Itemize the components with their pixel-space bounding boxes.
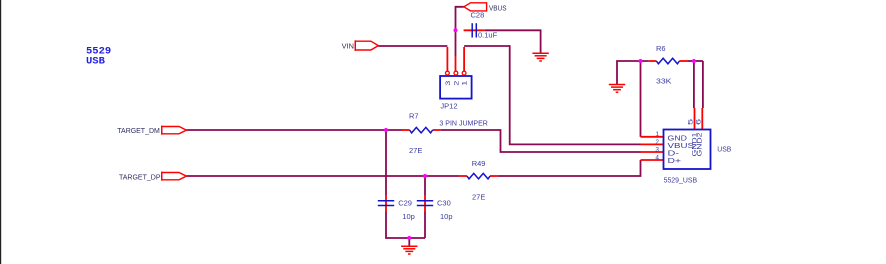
svg-text:3 PIN JUMPER: 3 PIN JUMPER	[439, 119, 488, 128]
svg-text:27E: 27E	[472, 192, 485, 201]
svg-text:USB: USB	[86, 55, 106, 67]
svg-text:0.1uF: 0.1uF	[478, 31, 498, 40]
svg-text:6: 6	[695, 119, 702, 125]
svg-text:VBUS: VBUS	[489, 3, 507, 12]
svg-text:C30: C30	[437, 199, 451, 208]
svg-text:C29: C29	[398, 199, 412, 208]
svg-text:5529_USB: 5529_USB	[664, 176, 698, 185]
svg-text:1: 1	[655, 131, 659, 138]
svg-text:1: 1	[461, 81, 468, 86]
svg-text:2: 2	[453, 81, 460, 86]
svg-text:3: 3	[444, 80, 451, 86]
svg-text:VIN: VIN	[342, 41, 354, 50]
svg-text:R6: R6	[656, 44, 666, 53]
svg-text:D+: D+	[668, 156, 682, 165]
svg-text:USB: USB	[717, 145, 731, 154]
svg-text:C28: C28	[471, 11, 485, 20]
svg-text:10p: 10p	[440, 212, 453, 221]
svg-text:TARGET_DM: TARGET_DM	[117, 126, 160, 135]
svg-text:3: 3	[655, 146, 659, 153]
svg-text:TARGET_DP: TARGET_DP	[119, 172, 161, 181]
svg-text:R7: R7	[409, 112, 419, 121]
svg-text:33K: 33K	[656, 77, 672, 86]
svg-text:GND2: GND2	[696, 133, 704, 157]
svg-text:2: 2	[655, 139, 659, 146]
svg-text:R49: R49	[472, 159, 486, 168]
svg-text:4: 4	[655, 155, 659, 162]
svg-text:JP12: JP12	[440, 102, 457, 111]
svg-text:27E: 27E	[409, 146, 422, 155]
svg-text:5: 5	[687, 119, 694, 125]
svg-text:10p: 10p	[402, 212, 415, 221]
